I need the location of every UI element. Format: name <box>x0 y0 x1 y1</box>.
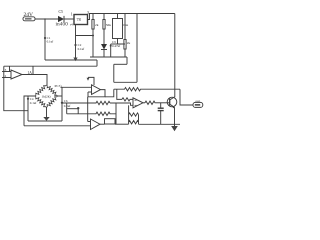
svg-text:78: 78 <box>77 17 81 22</box>
junction C4 <box>27 98 29 100</box>
junction R1 <box>92 35 94 37</box>
ground rail B <box>90 56 127 58</box>
wire collector up <box>174 14 176 98</box>
junction C1 <box>44 37 46 39</box>
regulator ground pin wire <box>75 25 77 59</box>
svg-text:0.47uf: 0.47uf <box>112 44 121 48</box>
reference line C <box>4 65 97 67</box>
box U2 <box>113 14 123 39</box>
wire out feed <box>180 89 193 105</box>
wire pin2 to R1 <box>76 35 94 37</box>
resistor U6 plus <box>122 98 133 101</box>
wire U6 plus feed <box>117 89 122 99</box>
capacitor C4 wire <box>27 96 29 121</box>
wire R5 right <box>115 123 129 125</box>
op-amp U4 <box>92 85 101 95</box>
wire bridge bottom <box>46 108 48 118</box>
arrow node <box>87 77 94 85</box>
wire U2 bottom <box>118 39 126 45</box>
wire C6 vertical <box>61 87 63 121</box>
svg-text:0.1uf: 0.1uf <box>47 40 55 44</box>
wire riser <box>115 103 117 124</box>
wire step bar 2 <box>114 81 137 83</box>
wire U3 fb left <box>9 66 11 71</box>
wire line cont <box>110 103 133 105</box>
wire top rail <box>88 14 175 20</box>
wire left outer vertical <box>4 66 28 111</box>
box resistor R5 <box>105 119 116 124</box>
wire U5 lower input line <box>24 125 91 127</box>
wire bridge node to U4 input <box>61 86 92 88</box>
svg-text:0.1uf: 0.1uf <box>64 104 72 108</box>
bottom rail right <box>139 123 181 125</box>
wire emitter down <box>174 107 176 126</box>
svg-text:in400: in400 <box>56 23 69 28</box>
resistor ladder z2 <box>129 121 139 124</box>
diode C5 <box>58 16 64 22</box>
resistor R3 <box>124 14 126 58</box>
wire step bar 1 <box>114 63 127 65</box>
wire right corner stub <box>58 95 63 97</box>
resistor R2 56k <box>103 14 105 45</box>
junction C2 <box>74 44 76 46</box>
svg-text:2k: 2k <box>95 23 99 27</box>
svg-text:2k: 2k <box>127 41 131 45</box>
wire U5 output <box>100 123 105 125</box>
svg-text:1: 1 <box>71 11 73 16</box>
wire loop line <box>28 120 62 122</box>
resistor R1 2k <box>92 14 94 58</box>
ground arrow bridge <box>43 117 49 121</box>
wire diode to regulator <box>64 18 74 20</box>
svg-text:0.1uf: 0.1uf <box>30 101 38 105</box>
svg-text:C5: C5 <box>59 10 64 14</box>
resistor ladder z1 <box>129 113 139 116</box>
op-amp U5 <box>88 119 100 130</box>
wire U4 feedback <box>88 90 105 97</box>
transistor Q1 <box>167 97 177 108</box>
svg-text:0.1uf: 0.1uf <box>78 47 86 51</box>
wire C6 node to U6 minus <box>62 102 92 104</box>
arrow to ground rail <box>73 58 77 62</box>
feedback line to transistor <box>114 88 180 91</box>
connector J1 24V input <box>23 17 35 21</box>
wire U4 minus stub <box>88 91 92 93</box>
plus mark <box>135 99 137 101</box>
rail link <box>96 60 98 66</box>
svg-text:r4: r4 <box>70 23 73 27</box>
ground arrow Q1 <box>171 126 178 131</box>
svg-text:1k(2k): 1k(2k) <box>42 94 51 98</box>
op-amp U6 <box>133 98 143 108</box>
regulator U1 <box>74 15 88 25</box>
wire 24V to diode <box>35 18 58 20</box>
svg-text:PC3): PC3) <box>55 84 62 88</box>
wire U4 out link <box>105 89 114 97</box>
svg-text:3: 3 <box>87 10 89 15</box>
resistor R out <box>145 101 156 104</box>
ground rail A <box>45 59 97 61</box>
svg-text:C6: C6 <box>64 99 68 103</box>
wire U6 out <box>143 102 145 104</box>
capacitor at base <box>158 103 164 125</box>
zener D2 <box>101 44 107 57</box>
capacitor C1 wire <box>44 19 46 60</box>
wire bridge left <box>24 96 35 126</box>
ladder left vertical <box>128 105 130 124</box>
op-amp U3 <box>2 70 22 79</box>
wire step vertical from top rail <box>136 14 138 83</box>
bridge B1 <box>35 85 58 108</box>
wire U3 output <box>22 75 47 86</box>
junction C6 <box>61 102 63 104</box>
connector J2 out <box>193 102 203 107</box>
junction C1 tap <box>44 18 46 20</box>
cap sub network <box>67 103 116 116</box>
svg-text:56k: 56k <box>106 23 111 27</box>
resistor in line <box>92 101 110 104</box>
minus mark <box>135 104 137 106</box>
svg-text:04a: 04a <box>123 23 128 27</box>
wire U3 fb right <box>32 66 34 74</box>
ladder right vertical <box>138 115 140 125</box>
wire notch leg <box>126 57 128 64</box>
junction <box>110 45 112 47</box>
svg-text:out: out <box>196 99 200 103</box>
wire to base <box>156 102 170 104</box>
wire fb down link <box>87 97 89 122</box>
wire step leg <box>113 64 115 82</box>
